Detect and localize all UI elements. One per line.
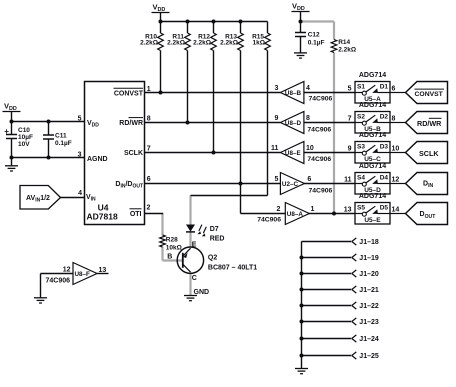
svg-text:C: C xyxy=(192,275,197,282)
svg-text:74C906: 74C906 xyxy=(46,278,71,285)
svg-text:AD7818: AD7818 xyxy=(87,212,118,222)
svg-text:D3: D3 xyxy=(380,144,389,151)
svg-text:ADG714: ADG714 xyxy=(359,163,386,170)
svg-text:C10: C10 xyxy=(18,127,30,134)
svg-text:1: 1 xyxy=(147,86,151,93)
svg-text:14: 14 xyxy=(392,206,400,213)
svg-text:ADG714: ADG714 xyxy=(359,102,386,109)
svg-text:74C906: 74C906 xyxy=(307,156,331,163)
svg-text:12: 12 xyxy=(63,267,71,274)
svg-text:2.2kΩ: 2.2kΩ xyxy=(140,40,158,47)
svg-text:12: 12 xyxy=(392,176,400,183)
svg-text:9: 9 xyxy=(274,115,278,122)
svg-text:2.2kΩ: 2.2kΩ xyxy=(220,40,238,47)
svg-text:5: 5 xyxy=(348,85,352,92)
svg-text:S4: S4 xyxy=(357,175,365,182)
svg-text:U8–E: U8–E xyxy=(285,150,301,157)
svg-text:U8–F: U8–F xyxy=(75,271,91,278)
svg-text:J1–22: J1–22 xyxy=(359,303,379,310)
svg-text:2.2kΩ: 2.2kΩ xyxy=(167,40,185,47)
svg-text:S5: S5 xyxy=(357,205,365,212)
svg-text:OTI: OTI xyxy=(130,211,142,218)
svg-text:3: 3 xyxy=(274,85,278,92)
svg-text:8: 8 xyxy=(392,115,396,122)
svg-text:R28: R28 xyxy=(166,237,178,244)
svg-text:D7: D7 xyxy=(210,226,219,233)
svg-text:1kΩ: 1kΩ xyxy=(253,40,265,47)
svg-text:ADG714: ADG714 xyxy=(359,72,386,79)
svg-text:C12: C12 xyxy=(308,32,320,39)
svg-text:R14: R14 xyxy=(338,39,350,46)
svg-text:4: 4 xyxy=(306,85,310,92)
svg-text:7: 7 xyxy=(147,145,151,152)
svg-text:J1–23: J1–23 xyxy=(359,319,379,326)
svg-text:S2: S2 xyxy=(357,114,365,121)
svg-text:J1–21: J1–21 xyxy=(359,287,379,294)
svg-text:GND: GND xyxy=(194,289,210,296)
svg-text:5: 5 xyxy=(274,176,278,183)
svg-text:6: 6 xyxy=(147,176,151,183)
svg-text:2: 2 xyxy=(147,205,151,212)
svg-text:1: 1 xyxy=(311,206,315,213)
svg-text:11: 11 xyxy=(271,145,279,152)
svg-text:13: 13 xyxy=(99,267,107,274)
svg-text:C11: C11 xyxy=(55,133,67,140)
svg-text:D1: D1 xyxy=(380,84,389,91)
svg-text:D5: D5 xyxy=(380,205,389,212)
svg-text:D4: D4 xyxy=(380,175,389,182)
svg-text:10V: 10V xyxy=(18,141,30,148)
svg-text:J1–19: J1–19 xyxy=(359,255,379,262)
svg-text:D2: D2 xyxy=(380,114,389,121)
svg-text:RD/WR: RD/WR xyxy=(417,119,442,128)
svg-text:S3: S3 xyxy=(357,144,365,151)
svg-text:7: 7 xyxy=(348,115,352,122)
svg-text:U2–C: U2–C xyxy=(282,181,299,188)
svg-text:J1–20: J1–20 xyxy=(359,271,379,278)
svg-text:ADG714: ADG714 xyxy=(359,132,386,139)
svg-text:J1–24: J1–24 xyxy=(359,336,379,343)
svg-text:+: + xyxy=(4,127,9,136)
svg-text:74C906: 74C906 xyxy=(309,96,333,103)
svg-text:U8–D: U8–D xyxy=(285,120,302,127)
svg-text:74C906: 74C906 xyxy=(307,127,331,134)
svg-text:B: B xyxy=(167,253,172,260)
svg-text:10kΩ: 10kΩ xyxy=(166,244,182,251)
svg-text:S1: S1 xyxy=(357,84,365,91)
svg-text:2: 2 xyxy=(276,206,280,213)
svg-text:CONVST: CONVST xyxy=(114,91,144,98)
svg-text:U5–C: U5–C xyxy=(364,156,381,163)
svg-text:0.1µF: 0.1µF xyxy=(55,140,72,147)
svg-text:2.2kΩ: 2.2kΩ xyxy=(193,40,211,47)
svg-text:74C906: 74C906 xyxy=(257,217,281,224)
svg-text:RED: RED xyxy=(210,235,225,242)
svg-text:Q2: Q2 xyxy=(208,254,217,261)
svg-text:10: 10 xyxy=(306,145,314,152)
svg-text:SCLK: SCLK xyxy=(124,150,143,157)
svg-text:10µF: 10µF xyxy=(18,134,33,141)
svg-text:RD/WR: RD/WR xyxy=(119,120,143,127)
svg-text:ADG714: ADG714 xyxy=(359,193,386,200)
svg-text:8: 8 xyxy=(147,115,151,122)
svg-text:8: 8 xyxy=(306,115,310,122)
svg-text:6: 6 xyxy=(392,85,396,92)
svg-text:2.2kΩ: 2.2kΩ xyxy=(338,46,356,53)
svg-text:9: 9 xyxy=(348,145,352,152)
svg-text:U8–B: U8–B xyxy=(285,90,302,97)
svg-text:11: 11 xyxy=(344,176,352,183)
svg-text:SCLK: SCLK xyxy=(419,149,439,158)
svg-text:BC807 – 40LT1: BC807 – 40LT1 xyxy=(208,264,257,271)
svg-text:U8–A: U8–A xyxy=(287,211,304,218)
svg-text:13: 13 xyxy=(344,206,352,213)
svg-text:4: 4 xyxy=(78,190,82,197)
svg-text:J1–18: J1–18 xyxy=(359,239,379,246)
svg-text:0.1µF: 0.1µF xyxy=(308,39,325,46)
svg-text:6: 6 xyxy=(307,176,311,183)
svg-text:74C906: 74C906 xyxy=(309,188,333,195)
svg-text:U5–E: U5–E xyxy=(364,217,381,224)
svg-text:AGND: AGND xyxy=(87,156,108,163)
svg-text:CONVST: CONVST xyxy=(415,91,444,98)
svg-text:J1–25: J1–25 xyxy=(359,353,379,360)
svg-text:10: 10 xyxy=(392,145,400,152)
